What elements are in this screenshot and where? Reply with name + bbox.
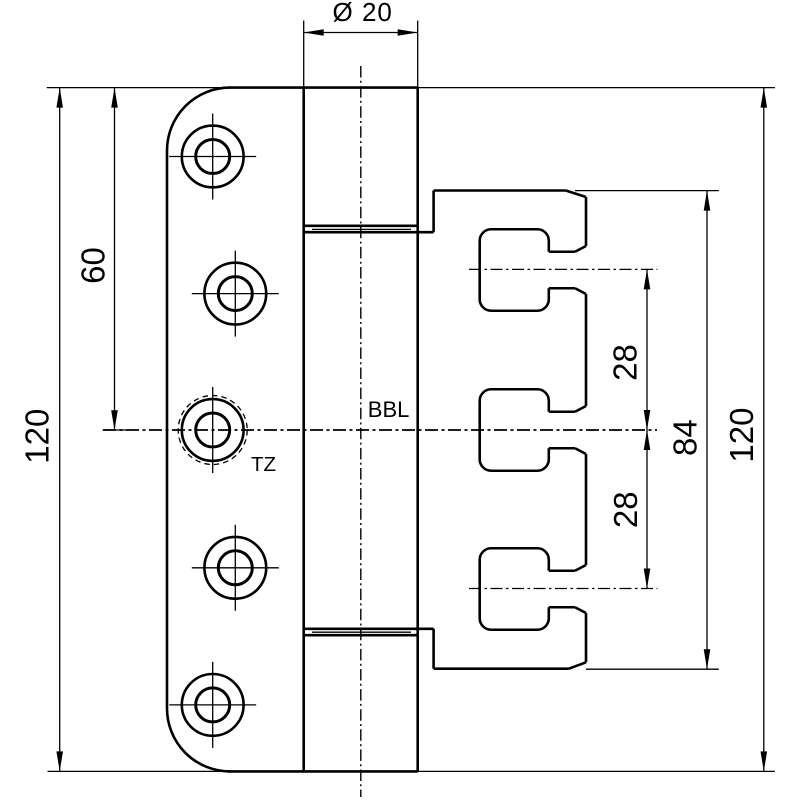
dimension 28 lower line [646,430,648,589]
dimension diameter 20 extension right [417,21,419,88]
center line horizontal main axis [103,429,657,431]
center line cutout 1 [469,268,657,270]
dimension 60 extension stub [103,429,127,431]
cutout 3 neck [549,569,575,572]
screw hole 4 inner circle [218,551,252,585]
svg-text:28: 28 [607,491,644,528]
left leaf bottom edge [228,770,418,773]
dimension 120 right line [763,88,765,772]
right leaf right edge segments [585,197,588,246]
knuckle joint top [305,225,418,228]
right leaf top edge [434,189,566,192]
screw hole 2 cross [192,293,279,295]
dimension diameter 20 extension left [303,21,305,88]
dimension diameter 20 line [304,32,418,34]
svg-text:84: 84 [667,419,704,456]
screw hole 5 inner circle [196,688,230,722]
barrel right edge [416,88,419,772]
dimension 84 extension bottom [586,668,719,670]
barrel left edge [302,88,305,772]
screw hole 3 cross [212,387,214,473]
screw hole 3 inner circle [196,413,230,447]
right leaf step bottom [432,629,435,669]
screw hole 2 inner circle [218,277,252,311]
right leaf step top [432,191,435,233]
screw hole 2 outer circle [204,263,266,325]
cutout 3 keyhole [480,548,549,630]
screw hole 5 cross [169,704,256,706]
extension line bottom edge [48,770,776,772]
TZ dashed circle [178,396,247,465]
svg-text:Ø 20: Ø 20 [333,0,393,27]
right leaf bottom chamfer [569,662,586,668]
dimension 84 extension top [575,190,719,192]
left leaf top edge [228,86,418,89]
dimension 28 upper line [646,269,648,430]
right leaf bottom edge [434,667,569,670]
svg-text:120: 120 [18,409,55,464]
dimension 84 line [706,191,708,670]
screw hole 1 inner circle [196,140,230,174]
svg-text:BBL: BBL [368,397,410,422]
svg-text:28: 28 [607,344,644,381]
screw hole 5 outer circle [182,674,244,736]
svg-text:120: 120 [723,408,760,463]
cutout 2 neck [549,410,575,413]
svg-text:TZ: TZ [251,453,276,476]
screw hole 3 outer circle [182,399,244,461]
extension line top edge [47,87,775,89]
cutout 1 neck [549,250,575,253]
center line cutout 3 [469,588,657,590]
right leaf top chamfer [566,191,586,198]
dimension 120 left line [59,88,61,772]
svg-text:60: 60 [75,247,112,284]
cutout 2 keyhole [480,389,549,471]
screw hole 4 cross [192,567,279,569]
knuckle joint bottom [304,627,434,630]
cutout 1 keyhole [480,229,549,311]
screw hole 4 outer circle [204,537,266,599]
screw hole 1 cross [169,156,256,158]
screw hole 1 outer circle [182,126,244,188]
left leaf outline [167,88,230,772]
center line vertical barrel axis [360,66,362,797]
dimension 60 line [114,88,116,431]
